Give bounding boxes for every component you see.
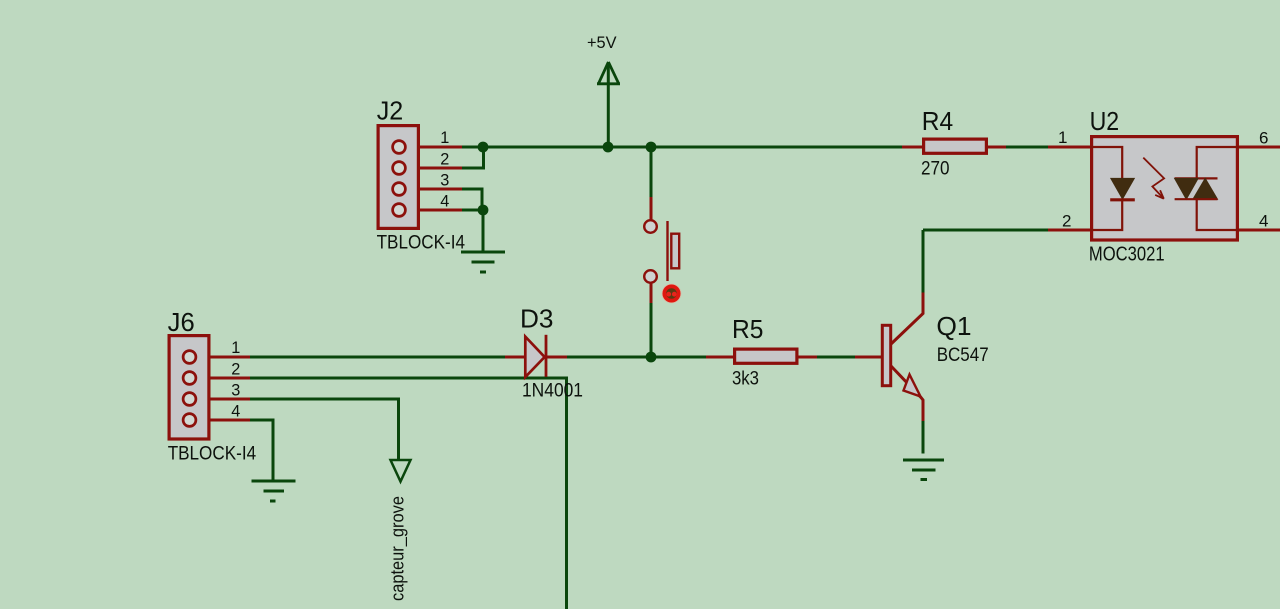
svg-text:2: 2 <box>231 361 240 379</box>
wire +5V vertical <box>607 64 610 148</box>
power +5V symbol <box>597 62 620 84</box>
svg-text:1: 1 <box>440 129 449 147</box>
pin stubs U2 (red) <box>1048 147 1280 230</box>
pin stubs J6 (red) <box>190 357 251 420</box>
wire Q1 collector vertical <box>922 230 925 293</box>
ground below Q1 <box>903 460 944 480</box>
U2 triac right triangle <box>1193 178 1218 199</box>
diode D3 cathode bar <box>545 335 548 377</box>
wire J6 pin3 to capteur_grove <box>250 399 399 460</box>
svg-text:3: 3 <box>440 172 449 190</box>
resistor R5 body <box>735 349 797 363</box>
svg-text:1: 1 <box>231 339 240 357</box>
svg-text:4: 4 <box>440 193 449 211</box>
Q1 collector lead (red) <box>891 293 923 345</box>
svg-text:+5V: +5V <box>587 33 617 52</box>
junction node button bottom <box>646 352 657 363</box>
svg-text:3: 3 <box>231 382 240 400</box>
svg-text:U2: U2 <box>1090 108 1120 136</box>
U2 internal cathode path <box>1090 200 1122 230</box>
svg-text:Q1: Q1 <box>936 313 971 341</box>
svg-text:BC547: BC547 <box>937 345 989 366</box>
pin stubs R5 (red) <box>706 356 817 359</box>
wire J2 pin2 riser <box>462 147 484 168</box>
U2 internal pin6 path <box>1197 147 1239 178</box>
push button actuator body <box>671 234 679 269</box>
label J2 pin numbers <box>440 129 449 211</box>
wire Q1 emitter to ground <box>922 421 925 454</box>
svg-text:1: 1 <box>1058 128 1067 147</box>
U2 triac top line <box>1175 177 1218 179</box>
wire J2 pin3 drop <box>462 189 482 210</box>
svg-text:270: 270 <box>921 159 950 180</box>
pin stubs J2 (red) <box>399 147 462 210</box>
wire R4 to U2 <box>1006 146 1048 149</box>
transistor Q1 emitter arrowhead <box>904 375 921 397</box>
svg-text:J6: J6 <box>168 309 195 337</box>
push button state indicator (red dot) <box>662 284 682 304</box>
svg-text:R4: R4 <box>922 108 953 136</box>
U2 light arrow head <box>1155 190 1164 198</box>
pin stubs button (red) <box>650 197 653 303</box>
wire D3 cathode to R5 <box>567 356 706 359</box>
U2 triac bottom line <box>1175 198 1218 200</box>
wire J2 pin1 to node A <box>462 146 483 149</box>
diode D3 triangle <box>525 337 544 377</box>
svg-text:4: 4 <box>1259 212 1268 231</box>
svg-text:3k3: 3k3 <box>732 369 759 390</box>
pin stubs R4 (red) <box>902 146 1006 149</box>
ground below J2 <box>461 252 505 272</box>
pin stub Q1 base (red) <box>855 356 881 359</box>
Q1 emitter lead (red) <box>891 366 923 421</box>
U2 internal LED triangle <box>1111 178 1135 199</box>
junction node J2 pin4 <box>478 205 489 216</box>
U2 triac left triangle <box>1175 178 1199 199</box>
junction node +5V <box>603 142 614 153</box>
push button actuator bar <box>666 221 668 281</box>
label J6 pin numbers <box>231 339 240 421</box>
J6 pin circles <box>183 351 196 427</box>
svg-text:D3: D3 <box>520 306 554 334</box>
U2 internal LED cathode bar <box>1110 198 1135 201</box>
wire button bottom <box>650 303 653 357</box>
svg-text:2: 2 <box>440 151 449 169</box>
svg-text:R5: R5 <box>732 316 763 344</box>
wire J6 pin2 down off-page <box>250 378 567 609</box>
transistor Q1 base bar <box>882 325 890 385</box>
wire button top <box>650 147 653 197</box>
svg-text:2: 2 <box>1062 212 1071 231</box>
svg-text:capteur_grove: capteur_grove <box>388 496 409 601</box>
wire J6 pin1 to D3 <box>250 356 505 359</box>
J2 pin circles <box>393 141 406 217</box>
pin stubs D3 (red) <box>505 356 567 359</box>
wire U2 pin2 horizontal <box>923 229 1048 232</box>
svg-text:1N4001: 1N4001 <box>522 380 583 401</box>
svg-text:4: 4 <box>231 403 240 421</box>
U2 internal pin4 path <box>1197 199 1239 230</box>
svg-text:MOC3021: MOC3021 <box>1089 243 1165 265</box>
svg-text:J2: J2 <box>377 98 404 126</box>
push button SW contacts <box>644 220 657 283</box>
resistor R4 body <box>924 139 987 153</box>
wire main +5V rail <box>483 146 902 149</box>
svg-text:TBLOCK-I4: TBLOCK-I4 <box>168 443 257 464</box>
U2 light arrow zigzag <box>1143 158 1164 199</box>
connector J2 body <box>378 126 418 229</box>
junction node J2 pin1 <box>478 142 489 153</box>
U2 internal anode path <box>1090 147 1122 178</box>
ground below J6 <box>252 481 296 501</box>
net arrow capteur_grove <box>391 460 411 482</box>
wire J2 ground drop <box>482 210 485 252</box>
svg-text:TBLOCK-I4: TBLOCK-I4 <box>377 233 466 254</box>
wire J2 pin4 <box>462 209 483 212</box>
wire R5 to Q1 base <box>817 356 855 359</box>
junction node button top <box>646 142 657 153</box>
connector J6 body <box>169 336 209 439</box>
svg-text:6: 6 <box>1259 129 1268 148</box>
optocoupler U2 body <box>1092 137 1238 240</box>
wire J6 pin4 to ground <box>250 420 273 481</box>
